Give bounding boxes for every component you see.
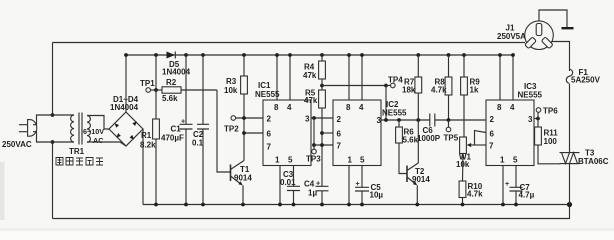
node: R1/TP1 column on DC rail — [154, 53, 158, 57]
capacitor C5 10u — [355, 166, 369, 205]
earth terminal bar — [562, 27, 574, 29]
pin numbers IC1 — [267, 103, 311, 165]
svg-text:2: 2 — [337, 115, 342, 124]
resistor R4 — [319, 61, 326, 79]
wire: secondary top to bridge left — [87, 116, 109, 130]
svg-text:NE555: NE555 — [382, 109, 407, 118]
test point TP3 — [312, 149, 317, 154]
wire: TP5 stub — [448, 120, 450, 127]
transistor T1 9014 — [231, 161, 245, 205]
wire: R7 column — [417, 55, 419, 120]
resistor R7 — [415, 77, 422, 93]
wire: bridge plus to DC rail — [125, 55, 127, 112]
node: R1 ground — [154, 203, 158, 207]
capacitor C7 4.7u — [505, 166, 523, 205]
wire: R3 column — [243, 55, 245, 161]
wire: R9 column down to W1 — [463, 55, 465, 137]
wire: R2 to T1 base riser — [181, 89, 217, 91]
resistor R10 — [459, 181, 466, 198]
svg-text:TR1: TR1 — [69, 147, 85, 156]
svg-text:100: 100 — [544, 137, 558, 146]
node: R10 ground — [461, 203, 465, 207]
svg-text:IC1: IC1 — [258, 81, 271, 90]
node: ground to mains-return junction — [567, 202, 572, 207]
label dian-yuan-bian-ya-qi (power transformer, CJK approximated) — [56, 158, 103, 166]
wire: T1 base riser from R2 — [217, 90, 231, 172]
node: plug bottom tap on left rail — [51, 140, 55, 144]
node: R5 bottom to IC2 pin6 — [320, 131, 324, 135]
svg-text:+: + — [181, 117, 185, 126]
node: C7 ground — [514, 203, 518, 207]
node: feedback tee on output — [384, 118, 388, 122]
wire: left mains rail upper segment — [52, 43, 54, 116]
wire: triac MT2 up to fuse — [569, 84, 571, 153]
resistor R8 — [445, 77, 452, 95]
svg-text:4: 4 — [359, 103, 364, 112]
wire: IC3 pin1 to ground — [502, 166, 504, 205]
wire: R8 column — [448, 55, 450, 120]
capacitor C2 0.1 — [197, 55, 209, 205]
transformer TR1 core — [79, 113, 82, 145]
wire: top mains rail — [53, 42, 526, 44]
svg-text:2: 2 — [490, 115, 495, 124]
resistor R9 — [461, 77, 468, 95]
svg-text:TP2: TP2 — [224, 125, 239, 134]
op IC2 NE555 timer box — [333, 100, 381, 166]
svg-text:6~10V: 6~10V — [83, 127, 104, 136]
test point TP1 — [146, 88, 151, 93]
capacitor C3 0.01 — [287, 166, 300, 205]
node: C1 on DC rail — [184, 53, 188, 57]
svg-text:1: 1 — [500, 156, 505, 165]
wire: down to TP3 — [313, 118, 315, 149]
svg-text:18k: 18k — [402, 86, 416, 95]
wire: IC1 pin1 to ground — [279, 166, 281, 205]
wire: R11 column — [538, 119, 561, 164]
wire: feedback down to IC2 pin3 line — [385, 86, 387, 121]
node: C1 ground — [184, 203, 188, 207]
wire: IC2 pin1 to ground — [348, 166, 350, 205]
svg-text:5A250V: 5A250V — [571, 76, 601, 85]
node: TP1 junction — [154, 88, 158, 92]
svg-text:TP1: TP1 — [140, 79, 155, 88]
wire: IC2 pin4 to rail — [361, 55, 363, 100]
wire: IC1 pin8 to rail — [276, 55, 278, 100]
svg-text:5: 5 — [288, 156, 293, 165]
node: IC2 pin8 rail — [347, 53, 351, 57]
svg-text:1µ: 1µ — [308, 189, 317, 198]
wire: R1 column — [155, 90, 157, 205]
transformer TR1 secondary winding — [87, 116, 90, 143]
svg-text:8: 8 — [346, 103, 351, 112]
wire: J1 earth pin — [539, 10, 567, 27]
svg-text:NE555: NE555 — [255, 90, 280, 99]
plug P1 250VAC — [19, 120, 37, 137]
resistor R11 — [535, 127, 542, 145]
svg-text:250VAC: 250VAC — [2, 140, 32, 149]
node: IC1 pin8 rail — [275, 53, 279, 57]
wire: TP1 stub — [151, 89, 163, 91]
diode D5 1N4004 — [167, 52, 176, 59]
node: plug top tap on left rail — [51, 113, 55, 117]
svg-text:7: 7 — [489, 142, 494, 151]
triac T3 BTA06C — [560, 153, 580, 164]
capacitor C1 470uF — [180, 55, 193, 205]
capacitor C6 1000P coupling — [430, 114, 435, 127]
node: R7/T2 collector tee — [416, 118, 420, 122]
svg-text:7: 7 — [337, 142, 342, 151]
transistor T2 9014 — [407, 163, 418, 205]
wire: ground rail — [143, 204, 570, 206]
svg-text:C1: C1 — [171, 125, 182, 134]
svg-text:3: 3 — [377, 116, 382, 125]
node: R7 on DC rail — [416, 53, 420, 57]
node: pin3 tee — [536, 117, 540, 121]
svg-text:0.1: 0.1 — [192, 139, 204, 148]
pin numbers IC3 — [489, 103, 533, 165]
resistor R1 — [153, 119, 160, 139]
wire: IC3 pin4 to rail — [512, 55, 514, 100]
svg-text:1000P: 1000P — [417, 134, 441, 143]
wire: IC2 pin3 output line to IC3 pin2 — [381, 119, 486, 121]
svg-text:+: + — [316, 179, 320, 188]
wire: R6 column — [399, 120, 407, 174]
svg-text:R2: R2 — [166, 78, 177, 87]
test point TP4 — [391, 83, 396, 88]
svg-text:1: 1 — [348, 156, 353, 165]
node: R8 on DC rail — [447, 53, 451, 57]
bridge rectifier D1~D4 — [109, 112, 143, 146]
wire: TP4 stub — [386, 85, 391, 87]
node: R3 on DC rail — [242, 53, 246, 57]
svg-text:5.6k: 5.6k — [162, 94, 178, 103]
wire: TP6 stub — [537, 112, 539, 118]
node: trigger node tee — [447, 118, 451, 122]
svg-text:9014: 9014 — [412, 175, 430, 184]
svg-text:+: + — [356, 179, 360, 188]
node: T2 emitter ground — [415, 203, 419, 207]
test point TP6 — [536, 108, 541, 113]
wire: DC supply rail — [126, 54, 513, 56]
wire: IC1 pin4 to rail — [289, 55, 291, 100]
wire: DC rail down to TP1 junction — [155, 55, 157, 90]
svg-text:3: 3 — [528, 115, 533, 124]
wire: to IC2 pin6 — [322, 132, 333, 134]
test point TP2 — [231, 116, 236, 121]
svg-text:AC: AC — [93, 136, 103, 145]
node: pin6 junction — [242, 131, 246, 135]
wire: TP2 stub to IC1 pin2 — [236, 117, 263, 119]
wire: R4 column — [321, 55, 323, 186]
wire: to IC2 pin7 — [314, 144, 333, 146]
svg-text:TP3: TP3 — [306, 155, 321, 164]
svg-text:1: 1 — [275, 156, 280, 165]
node: pin7 tee — [312, 143, 316, 147]
svg-text:4: 4 — [510, 103, 515, 112]
svg-text:+: + — [505, 179, 509, 188]
wire: IC3 pin8 to rail — [499, 55, 501, 100]
node: timing node crossing pin7 wire — [320, 143, 324, 147]
wire: J1 right to fuse — [552, 42, 570, 72]
node: IC1 pin1 ground — [278, 203, 282, 207]
svg-text:8.2k: 8.2k — [140, 141, 156, 150]
op IC1 NE555 timer box — [263, 100, 311, 166]
wire: bridge minus down to ground rail — [142, 129, 144, 205]
svg-text:5: 5 — [360, 156, 365, 165]
svg-text:250V5A: 250V5A — [497, 32, 526, 41]
svg-text:0.01: 0.01 — [280, 178, 296, 187]
node: T1 emitter ground — [241, 203, 245, 207]
svg-text:7: 7 — [267, 143, 272, 152]
wire: plug bottom to transformer primary — [33, 132, 74, 142]
resistor R6 — [396, 127, 403, 143]
node: IC3 pin1 ground — [501, 203, 505, 207]
svg-text:47k: 47k — [304, 96, 318, 105]
wire: R9 crossing hop — [463, 117, 465, 123]
svg-text:TP4: TP4 — [388, 76, 403, 85]
node: C4 ground — [320, 203, 324, 207]
svg-text:R1: R1 — [141, 131, 152, 140]
node: R4 on DC rail — [320, 53, 324, 57]
node: pin3 tee — [312, 116, 316, 120]
transformer TR1 primary winding — [71, 115, 74, 142]
svg-text:BTA06C: BTA06C — [578, 157, 609, 166]
node: R6 tee — [397, 118, 401, 122]
node: C3 ground — [292, 203, 296, 207]
node: R4/R5 junction — [320, 84, 324, 88]
potentiometer W1 10k — [460, 137, 486, 154]
resistor R2 — [162, 87, 181, 93]
fuse F1 5A250V — [566, 69, 572, 84]
capacitor C4 1u — [316, 179, 329, 205]
node: IC2 pin4 rail — [360, 53, 364, 57]
svg-text:4.7k: 4.7k — [467, 190, 483, 199]
wire: junction to IC1 pin6 — [244, 132, 263, 134]
resistor R5 — [319, 90, 326, 108]
svg-text:6: 6 — [267, 130, 272, 139]
node: trigger junction — [242, 116, 246, 120]
svg-text:8: 8 — [274, 103, 279, 112]
node: DC rail start — [124, 53, 128, 57]
node: IC3 pin4 rail — [511, 53, 515, 57]
scan edge shading — [0, 162, 614, 231]
test point TP5 — [446, 127, 451, 132]
wire: IC1 pin3 to IC2 pin2 — [311, 117, 333, 119]
pin numbers IC2 — [337, 103, 382, 165]
svg-text:47k: 47k — [303, 71, 317, 80]
resistor R3 — [241, 76, 248, 94]
wire: IC3 pin3 to gate network — [534, 118, 538, 120]
svg-text:NE555: NE555 — [518, 91, 543, 100]
svg-text:10k: 10k — [224, 86, 238, 95]
svg-text:470µF: 470µF — [161, 134, 184, 143]
node: IC3 pin8 rail — [498, 53, 502, 57]
svg-text:10µ: 10µ — [370, 191, 384, 200]
svg-text:5: 5 — [513, 156, 518, 165]
svg-text:TP6: TP6 — [543, 107, 558, 116]
op IC3 NE555 timer box — [486, 100, 534, 166]
svg-text:C4: C4 — [304, 180, 315, 189]
wire: plug top to transformer primary — [33, 115, 74, 125]
svg-text:4: 4 — [287, 103, 292, 112]
svg-text:4.7µ: 4.7µ — [519, 191, 535, 200]
socket J1 250V5A — [525, 21, 554, 50]
wire: left mains rail lower segment — [52, 142, 54, 219]
svg-text:9014: 9014 — [234, 174, 252, 183]
wire: secondary bottom to bridge bottom — [87, 142, 126, 146]
node: C2 on DC rail — [201, 53, 205, 57]
wire: IC2 pin8 to rail — [348, 55, 350, 100]
svg-text:6: 6 — [490, 130, 495, 139]
svg-text:3: 3 — [305, 115, 310, 124]
wire: wiper tie to pin6 — [475, 131, 487, 146]
svg-text:8: 8 — [497, 103, 502, 112]
wire: T2 collector riser — [417, 120, 419, 163]
wire: bottom mains return rail — [53, 205, 570, 219]
node: IC2 pin1 ground — [347, 203, 351, 207]
node: C2 ground — [201, 203, 205, 207]
node: IC1 pin4 rail — [288, 53, 292, 57]
svg-text:4.7k: 4.7k — [431, 86, 447, 95]
wire: astable feedback R4/R5 junction to TP4 node — [322, 85, 386, 87]
wire: R10 to ground — [462, 198, 464, 205]
svg-text:1k: 1k — [470, 86, 479, 95]
svg-text:6: 6 — [337, 130, 342, 139]
svg-text:TP5: TP5 — [444, 134, 459, 143]
node: TP4 junction — [384, 84, 388, 88]
wire: triac MT1 down to common node — [569, 164, 571, 205]
svg-text:2: 2 — [267, 115, 272, 124]
svg-text:R3: R3 — [226, 77, 237, 86]
wire: W1 bottom to R10 — [462, 154, 465, 182]
node: R9 on DC rail — [462, 53, 466, 57]
node: C5 ground — [360, 203, 364, 207]
svg-text:1N4004: 1N4004 — [110, 103, 139, 112]
